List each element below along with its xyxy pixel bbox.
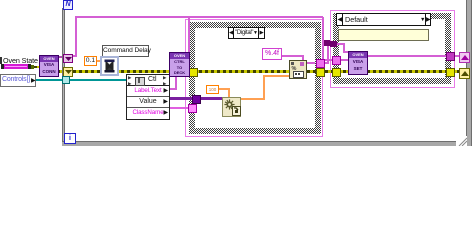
left shift register (VISA) <box>63 54 73 63</box>
for loop left border <box>62 8 65 142</box>
wire: 0.1 to Wait ms (orange) <box>96 60 101 62</box>
Wait (ms) icon with hourglass <box>100 56 119 76</box>
tunnel: purple square on case2 left border <box>330 41 337 47</box>
wire: control refnum Controls[] to tunnel (teal) <box>34 79 64 81</box>
case structure 1 interior <box>195 28 315 128</box>
numeric constant 100 <box>206 85 219 94</box>
case structure 2 checkered border band <box>333 13 451 84</box>
wire: VISA routed along top y16 <box>75 16 323 18</box>
wire: Label.Text to CTRL icon riser <box>168 88 177 90</box>
wire: Variant-to-Data DBL output staircase (orange) <box>240 98 265 100</box>
case structure 2 interior <box>339 19 445 78</box>
tunnel: VISA out of case2 <box>446 52 455 61</box>
sub VI icon: OVEN CTRL TO DECK <box>169 52 190 77</box>
for loop bottom border <box>62 141 472 146</box>
right shift register (error) <box>459 68 470 79</box>
left shift register (error) <box>63 67 73 77</box>
tunnel: string into case2 <box>332 56 341 65</box>
loop count terminal N <box>63 0 73 10</box>
tunnel: Value variant into case1 <box>192 95 201 104</box>
loop resize handle <box>456 136 467 146</box>
tunnel: error out of case1 <box>316 68 325 77</box>
case 1 selector label "Digital" <box>228 27 265 39</box>
wire: VISA drop into OVEN CTRL icon (x189) <box>188 17 190 56</box>
right shift register (VISA) <box>459 52 470 63</box>
sub VI icon: OVEN VISA CONN <box>39 55 59 77</box>
wire: error main run across diagram <box>73 70 460 73</box>
numeric constant 0.1 <box>84 56 97 66</box>
sub VI icon: OVEN VISA SET <box>348 51 368 75</box>
wire: OVEN VISA CONN to left shift register <box>57 56 64 58</box>
case 2 selector label "Default" <box>336 13 431 26</box>
for loop right border <box>466 0 472 146</box>
property node (Ctl: Label.Text / Value / ClassName) <box>126 74 170 120</box>
Format Into String icon <box>289 60 307 79</box>
wire: VISA SET output to right tunnel <box>366 55 448 57</box>
wire: ClassName to case1 selector tunnel <box>168 107 190 109</box>
wire: string over into case2 <box>327 43 345 45</box>
wire: %.4f to Format icon <box>279 55 304 57</box>
string constant %.4f <box>262 48 282 60</box>
case structure 1 checkered border band <box>189 22 321 134</box>
wire: tunnel to right shift register (VISA) <box>452 55 460 57</box>
control reference constant "Controls[]" <box>0 74 36 87</box>
string constant (empty, pale yellow) in case 2 <box>338 29 429 41</box>
wire: refnum tunnel to property node (teal) <box>67 79 126 81</box>
wire: string riser between cases <box>327 43 329 64</box>
tunnel: error out of case2 <box>446 68 455 77</box>
wire: variant Value into case1 (thick violet) <box>168 97 223 100</box>
refnum tunnel on left border (teal) <box>62 76 70 84</box>
loop iteration terminal i <box>64 133 76 144</box>
wire: Format icon string output <box>304 62 315 64</box>
wire: string drop to SET icon top <box>343 43 345 53</box>
label "Command Delay" <box>102 45 149 57</box>
junction: VISA branch square between cases <box>324 40 330 46</box>
wire: error CONN to left shift register <box>57 70 64 73</box>
wire: VISA drop right of case1 (x321) <box>322 17 324 61</box>
wire: VISA out of left shift register up-over (vertical x76) <box>73 55 77 57</box>
case structure 2 "Default" : outer violet outline <box>330 10 455 88</box>
wire: format string out of case1 <box>319 62 329 64</box>
wire: 100 constant to Variant-to-Data (orange) <box>217 88 230 90</box>
tunnel: error into case1 <box>189 68 198 77</box>
tunnel: ClassName selector on case1 <box>188 104 197 113</box>
tunnel: string out of case1 <box>316 59 325 68</box>
Variant To Data icon (gear) <box>222 97 241 117</box>
terminal strip under Oven State (cluster wire stub) <box>1 64 4 69</box>
wire: error cluster dashes before CONN icon <box>34 66 40 68</box>
wire: VISA into OVEN VISA SET left input <box>322 59 349 61</box>
tunnel: error into case2 <box>332 68 341 77</box>
label "Oven State" <box>0 57 2 64</box>
case structure 1 "Digital" : outer violet outline <box>185 19 323 137</box>
